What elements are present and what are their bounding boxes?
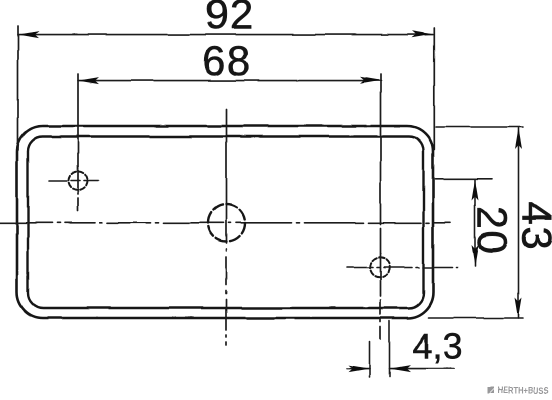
dimension 92 right arrow [412,31,433,38]
right hole horizontal centerline / 20 lower extension [347,267,458,269]
4,3 right tangent extension line [389,321,391,377]
left hole vertical centerline / 68 extension line [77,74,79,211]
dimension 4,3 left line with arrow [347,368,370,370]
92 right extension line [433,28,435,150]
right mounting hole [370,258,390,278]
43 top extension line [436,126,523,128]
right hole vertical centerline / 68 extension line [380,74,382,345]
lamp lens inner outline [28,137,424,309]
dimension 43 line [518,128,520,318]
dimension 92 left arrow [18,31,39,38]
HERTH+BUSS logo mark [487,387,494,394]
92 left extension line [17,26,19,150]
dimension 20 bottom arrow [472,245,479,266]
svg-text:92: 92 [205,0,255,38]
dimension 43 bottom arrow [515,297,522,318]
20 top extension line [435,178,492,180]
dimension 68 line [78,80,381,82]
svg-text:68: 68 [202,37,252,84]
horizontal centerline [0,222,450,224]
svg-text:20: 20 [469,206,516,256]
lamp body outer outline [17,126,433,318]
svg-text:4,3: 4,3 [412,326,464,367]
svg-text:43: 43 [514,202,552,252]
vertical centerline [226,109,228,345]
dimension 20 top arrow [472,180,479,201]
dimension 68 right arrow [360,77,381,84]
left mounting hole [69,171,88,190]
dimension 20 line [474,180,476,267]
dimension 68 left arrow [78,77,99,84]
4,3 left tangent extension line [369,342,371,377]
43 bottom extension line [428,317,523,319]
dimension 43 top arrow [515,128,522,149]
left hole horizontal centerline [49,180,101,182]
dimension 92 line [18,34,433,36]
svg-text:HERTH+BUSS: HERTH+BUSS [497,386,549,397]
dimension 4,3 right line with arrow [390,368,455,370]
center circle [208,205,245,242]
